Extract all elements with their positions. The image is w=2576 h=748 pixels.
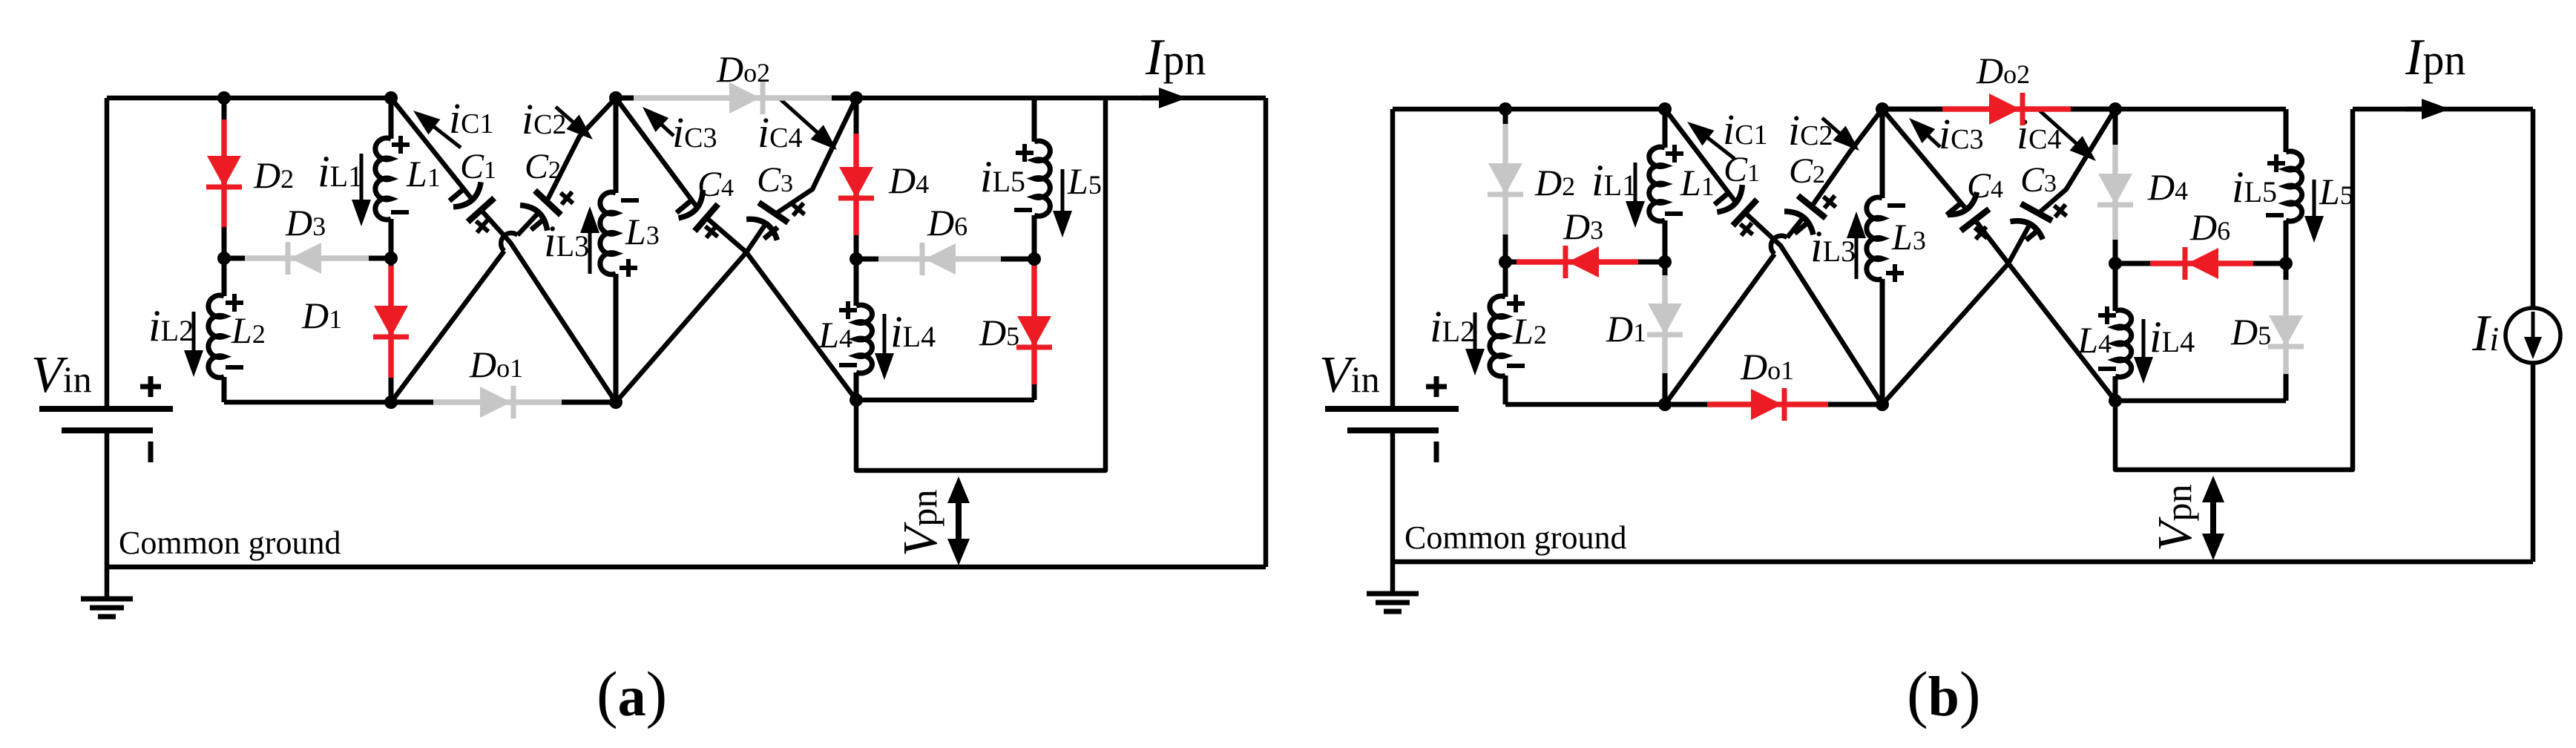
diode Do1 (a) [391,386,616,419]
wire Vin+ vertical (a) [105,98,110,409]
label Vpn (a) [893,490,947,557]
inductor L5 (b) [2284,109,2289,152]
arrow iL5 (a) [1061,169,1065,214]
polarity marks C3 (a) [764,227,778,238]
diode D5 (b) [2268,263,2304,401]
polarity marks L5 (a) [1016,151,1034,155]
wire common ground rail (a) [107,565,1266,570]
current source Ii (b) [2506,308,2560,363]
wire C3 diagonal (b) [2040,109,2115,211]
diode Do1 (b) [1665,388,1882,421]
arrow iL2 (b) [1473,312,1477,352]
wire top rail left (a) [107,96,391,101]
arrow iC3 (a) [660,123,674,136]
label Vpn (b) [2148,485,2202,551]
diode D4 (a) [838,98,874,259]
polarity marks L4 (b) [2098,313,2116,318]
diode D2 (b) [1488,109,1523,262]
diode D4 (b) [2097,109,2133,263]
capacitor C2 (a) [520,190,562,231]
wire C2 diagonal (a) [548,98,616,199]
inductor L5 (a) [1032,98,1037,142]
polarity marks L3 (b) [1887,203,1905,208]
arrow iL3 (b) [1855,235,1859,279]
capacitor C4 (b) [1948,192,1990,232]
wire bottom rail right (a) [856,398,1034,403]
polarity marks L3 (a) [621,198,639,203]
wire Ipn top (b) [2353,107,2533,112]
diode D1 (b) [1647,262,1683,404]
arrow iL1 (b) [1634,163,1637,204]
wire top rail right (a) [856,96,1266,101]
arrow Vpn (b) [2210,498,2216,538]
inductor L2 (a) [222,258,227,296]
wire Vin+ vertical (b) [1390,109,1396,409]
inductor L3 (b) [1880,109,1885,198]
wire bottom rail right (b) [2115,398,2286,404]
arrow iC4 (a) [781,99,819,134]
arrow Ipn (b) [2405,107,2425,112]
capacitor C2 (b) [1784,195,1827,234]
arrow iL4 (a) [883,314,887,356]
polarity marks L2 (a) [226,301,243,305]
polarity marks L5 (b) [2267,161,2285,165]
diode D5 (a) [1016,259,1052,400]
arrow iL4 (b) [2142,319,2146,360]
svg-text:Ipn: Ipn [2405,29,2465,86]
polarity marks C4 (b) [1947,203,1960,214]
polarity marks L4 (a) [839,308,857,312]
polarity marks C2 (b) [1795,222,1808,233]
capacitor C1 (a) [453,182,495,222]
polarity marks L2 (b) [1507,301,1525,306]
polarity marks C1 (a) [450,189,463,200]
arrow iL1 (a) [360,154,364,203]
voltage source Vin (a) [39,376,173,567]
wire hop at C1xC2 crossing (b) [1771,236,1787,255]
diode D3 (b) [1505,246,1665,278]
polarity marks C4 (a) [677,201,690,212]
capacitor C1 (b) [1717,185,1758,226]
arrow Vpn (a) [956,499,962,543]
capacitor C4 (a) [679,190,719,232]
wire hop at C1xC2 crossing (a) [501,233,517,251]
diode D6 (a) [856,243,1034,275]
wire C1 diagonal (b) [1665,109,1735,202]
wire common ground rail (b) [1393,560,2533,565]
svg-text:(b): (b) [1907,658,1981,729]
wire right vertical upper (b) [2531,109,2536,308]
inductor L2 (b) [1503,262,1508,297]
arrow iC3 (b) [1926,134,1940,147]
inductor L1 (a) [389,98,394,139]
diode Do2 (a) [616,82,856,114]
wire C4 diagonal (b) [1882,109,1966,209]
wire C4 diagonal (a) [616,98,697,207]
polarity marks L1 (a) [392,142,410,147]
svg-text:Common ground: Common ground [119,525,341,561]
polarity marks C1 (b) [1715,193,1728,204]
arrow iL5 (b) [2313,180,2316,219]
svg-text:Common ground: Common ground [1404,519,1626,556]
diode D2 (a) [206,98,242,258]
diode D6 (b) [2115,247,2286,280]
wire output loop (b) [2115,109,2353,470]
inductor L1 (b) [1663,109,1668,148]
wire mid rail left (b) [1505,402,1665,407]
ground symbol (b) [1367,562,1419,611]
capacitor C3 (a) [746,202,789,240]
arrow Ipn (a) [1143,96,1162,101]
inductor L3 (a) [614,98,619,193]
capacitor C3 (b) [2010,203,2052,240]
junction dots (b) [1499,102,1512,116]
wire C3 diagonal (a) [778,98,856,212]
arrow iL3 (a) [588,230,592,274]
wire top rail left (b) [1393,107,1665,112]
wire mid rail left (a) [224,400,391,405]
diode Do2 (b) [1882,93,2115,125]
wire top rail to L5 (b) [2115,107,2286,112]
diode D1 (a) [373,258,409,402]
arrow iC1 (a) [432,125,461,148]
wire C2 diagonal (b) [1813,109,1882,204]
voltage source Vin (b) [1325,376,1459,562]
polarity marks L1 (b) [1666,151,1683,156]
polarity marks C3 (b) [2026,229,2040,240]
wire right vertical lower (b) [2531,363,2536,562]
ground symbol (a) [81,567,133,617]
diode D3 (a) [224,242,391,275]
svg-text:Ipn: Ipn [1145,29,1206,86]
wire right vertical (a) [1264,98,1269,567]
junction dots (a) [217,91,231,105]
wire output loop (a) [856,98,1105,470]
arrow iC1 (b) [1706,137,1735,159]
arrow iC2 (a) [556,107,575,124]
arrow iC2 (b) [1822,118,1841,135]
arrow iC4 (b) [2040,111,2078,145]
inductor L4 (a) [854,259,859,306]
arrow iL2 (a) [192,312,196,353]
svg-text:(a): (a) [597,658,667,729]
wire C1 diagonal (a) [391,98,472,199]
polarity marks C2 (a) [531,218,545,229]
inductor L4 (b) [2113,263,2118,311]
